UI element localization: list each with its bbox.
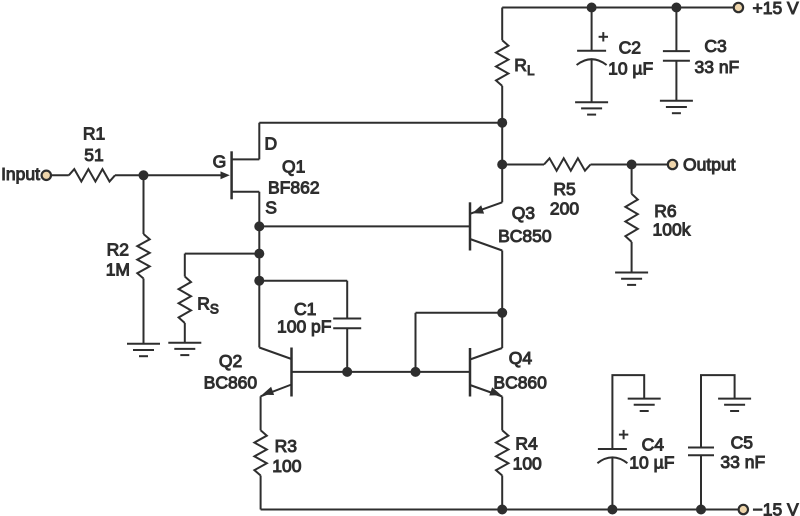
- ground C3: [660, 100, 693, 102]
- capacitor C4 plus: [619, 434, 628, 436]
- wire R4 bottom: [501, 476, 503, 510]
- svg-text:S: S: [265, 198, 277, 218]
- svg-text:Q4: Q4: [509, 348, 533, 368]
- wire C3 bottom stub: [675, 61, 677, 101]
- gate arrowhead: [221, 171, 230, 179]
- wire R5 left: [502, 164, 544, 166]
- capacitor C4: [598, 448, 627, 450]
- terminal Input: [42, 171, 51, 180]
- terminal Output: [668, 160, 677, 169]
- node Q3 emitter junction: [497, 160, 507, 170]
- transistor Q1 bar: [230, 151, 233, 199]
- wire R3 top: [260, 396, 262, 430]
- wire R1 to node: [115, 174, 144, 176]
- svg-text:10 µF: 10 µF: [629, 452, 674, 472]
- wire C1 bottom: [346, 328, 348, 372]
- transistor Q1 source lead: [232, 191, 260, 193]
- resistor R6: [625, 194, 637, 242]
- wire R6 bottom: [631, 242, 633, 273]
- svg-text:R6: R6: [654, 201, 676, 221]
- svg-text:Output: Output: [683, 154, 736, 174]
- resistor R1: [69, 169, 115, 181]
- wire Q3 base: [259, 225, 470, 227]
- node R4 rail junction: [497, 505, 507, 515]
- svg-text:100: 100: [272, 456, 301, 476]
- transistor Q3 arrow: [472, 205, 484, 213]
- node S junction: [254, 221, 264, 231]
- svg-text:Input: Input: [1, 164, 40, 184]
- wire gate: [144, 174, 223, 176]
- wire C3 top stub: [675, 8, 677, 52]
- wire Q1 drain up: [258, 123, 260, 160]
- ground RS: [168, 342, 201, 344]
- capacitor C2 plus: [599, 36, 608, 38]
- transistor Q3 bar: [469, 202, 472, 250]
- node C1 junction: [254, 276, 264, 286]
- wire C2 top stub: [591, 8, 593, 51]
- svg-text:10 µF: 10 µF: [608, 59, 653, 79]
- svg-text:BF862: BF862: [268, 178, 320, 198]
- transistor Q2 arrow: [262, 387, 274, 395]
- transistor Q1 drain lead: [232, 158, 260, 160]
- svg-text:100: 100: [513, 454, 542, 474]
- resistor RL: [496, 40, 508, 86]
- svg-text:D: D: [265, 133, 278, 153]
- svg-text:R2: R2: [107, 240, 129, 260]
- svg-text:C3: C3: [704, 36, 726, 56]
- wire RS horizontal: [185, 253, 259, 255]
- svg-text:100k: 100k: [653, 220, 691, 240]
- node output junction: [627, 160, 637, 170]
- capacitor C3: [663, 50, 690, 52]
- transistor Q2 emitter: [261, 385, 292, 397]
- transistor Q3 emitter slant: [470, 202, 502, 214]
- node RS junction: [254, 249, 264, 259]
- wire C5 bottom stub: [700, 455, 702, 509]
- capacitor C1: [333, 318, 361, 320]
- svg-text:R5: R5: [553, 179, 575, 199]
- wire RS top: [184, 254, 186, 277]
- wire drain to RL: [259, 122, 502, 124]
- terminal +15 V: [734, 3, 743, 12]
- svg-text:C5: C5: [731, 432, 753, 452]
- transistor Q2 bar: [290, 348, 293, 397]
- resistor R3: [254, 430, 266, 475]
- wire RS bottom: [184, 323, 186, 343]
- wire -15-V rail: [261, 509, 739, 511]
- svg-text:+15 V: +15 V: [753, 0, 800, 18]
- svg-text:G: G: [213, 152, 227, 172]
- svg-text:Q3: Q3: [512, 203, 535, 223]
- resistor RS: [179, 277, 191, 324]
- wire mirror link: [416, 312, 503, 314]
- svg-text:33 nF: 33 nF: [720, 452, 765, 472]
- wire Q2 collector slant: [259, 348, 291, 360]
- svg-text:BC850: BC850: [498, 226, 552, 246]
- wire input to R1: [51, 174, 69, 176]
- svg-text:R4: R4: [515, 434, 538, 454]
- transistor Q4 arrow: [489, 387, 501, 395]
- node C2 junction: [587, 3, 597, 13]
- svg-text:200: 200: [550, 199, 579, 219]
- transistor Q4 emitter: [470, 385, 502, 397]
- svg-text:RS: RS: [197, 293, 219, 316]
- svg-text:C2: C2: [619, 38, 641, 58]
- node C1 base junction: [342, 367, 352, 377]
- node C5 rail junction: [696, 505, 706, 515]
- wire C5 ground link: [701, 375, 735, 447]
- wire C4 bottom stub: [611, 458, 613, 510]
- wire R2 bottom: [143, 279, 145, 344]
- svg-text:100 pF: 100 pF: [277, 317, 331, 337]
- wire R6 top: [631, 165, 633, 194]
- wire C4 ground link: [612, 375, 644, 449]
- capacitor C5: [688, 447, 714, 449]
- wire R4 top: [501, 397, 503, 431]
- node mirror junction: [497, 308, 507, 318]
- wire +15-V rail: [502, 7, 733, 9]
- ground C5: [718, 398, 751, 400]
- wire R5 right: [591, 164, 668, 166]
- resistor R5: [544, 158, 591, 170]
- wire RL top: [501, 8, 503, 41]
- ground R6: [615, 272, 648, 274]
- wire R3 bottom: [260, 476, 262, 510]
- wire collector column: [501, 251, 503, 349]
- resistor R4: [496, 430, 508, 475]
- svg-text:BC860: BC860: [204, 372, 258, 392]
- wire RL bottom: [501, 86, 503, 123]
- terminal -15 V: [739, 505, 748, 514]
- svg-text:RL: RL: [514, 55, 535, 78]
- svg-text:−15 V: −15 V: [753, 500, 800, 516]
- svg-text:Q2: Q2: [219, 351, 242, 371]
- node drain-RL junction: [497, 118, 507, 128]
- node C4 rail junction: [607, 505, 617, 515]
- node C3 junction: [671, 3, 681, 13]
- ground C4: [628, 398, 661, 400]
- wire R2 top: [143, 175, 145, 234]
- svg-text:Q1: Q1: [282, 157, 305, 177]
- wire C2 bottom stub: [591, 60, 593, 103]
- wire Q3 emitter column: [501, 165, 503, 203]
- wire source column: [258, 192, 260, 348]
- transistor Q4 bar: [469, 348, 472, 397]
- svg-text:1M: 1M: [106, 260, 130, 280]
- svg-text:33 nF: 33 nF: [695, 57, 740, 77]
- ground R2: [127, 343, 160, 345]
- node link junction: [411, 367, 421, 377]
- capacitor C2: [577, 50, 606, 52]
- svg-text:BC860: BC860: [493, 373, 547, 393]
- svg-text:R1: R1: [83, 124, 105, 144]
- ground C2: [575, 101, 608, 103]
- transistor Q3 collector slant: [470, 239, 502, 251]
- wire RL node down: [501, 123, 503, 165]
- wire base rail: [292, 371, 471, 373]
- svg-text:R3: R3: [275, 436, 297, 456]
- transistor Q4 collector slant: [470, 348, 502, 360]
- wire C1 top: [259, 280, 347, 282]
- resistor R2: [137, 234, 149, 279]
- svg-text:51: 51: [84, 145, 103, 165]
- node input junction: [139, 170, 149, 180]
